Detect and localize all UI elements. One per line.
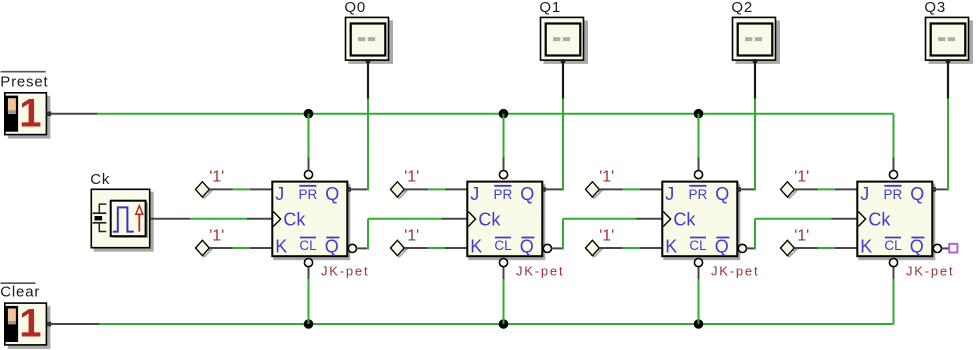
svg-text:Q: Q <box>715 184 729 204</box>
svg-text:Q3: Q3 <box>924 0 946 16</box>
constant '1' at FF1 K input (with value label) <box>196 227 225 256</box>
input switch Preset (value 1) <box>0 72 51 139</box>
wire: FF3 Q up to display Q2 <box>754 99 756 191</box>
wire: FF2 Qbar to FF3 Ck input <box>551 219 661 250</box>
constant '1' at FF3 K input (with value label) <box>586 227 615 256</box>
wire: FF2 Q up to display Q1 <box>562 99 564 191</box>
output display Q3 <box>924 0 973 64</box>
wire: Clear rail corner up to FF4 CL pin <box>893 267 895 324</box>
wire: constant to FF2 K pin <box>404 247 466 249</box>
svg-text:PR: PR <box>689 187 708 202</box>
svg-text:Q: Q <box>715 237 729 257</box>
svg-text:CL: CL <box>689 238 707 253</box>
svg-text:Ck: Ck <box>478 210 501 230</box>
wire: FF4 Qbar open pin marker <box>941 244 957 253</box>
junction + drop: Preset to FF2 PR pin <box>499 109 508 170</box>
wire: constant to FF1 J pin <box>209 188 271 190</box>
wire: Preset switch pin stub <box>51 113 98 115</box>
svg-text:'1': '1' <box>209 227 224 244</box>
clock generator Ck <box>90 171 154 252</box>
wire: constant to FF2 J pin <box>404 188 466 190</box>
svg-text:Q2: Q2 <box>731 0 753 16</box>
wire: display Q1 pin stub <box>562 61 564 99</box>
svg-text:CL: CL <box>494 238 512 253</box>
svg-text:JK-pet: JK-pet <box>906 264 954 279</box>
junction + rise: Clear to FF2 CL pin <box>499 267 508 328</box>
svg-text:1: 1 <box>19 91 41 135</box>
svg-text:Ck: Ck <box>90 171 110 188</box>
svg-text:Q1: Q1 <box>539 0 561 16</box>
svg-text:PR: PR <box>299 187 318 202</box>
wire: FF2 Q output stub <box>543 188 563 190</box>
junction + drop: Preset to FF1 PR pin <box>304 109 313 170</box>
svg-text:PR: PR <box>884 187 903 202</box>
input switch Clear (value 1) <box>0 283 51 349</box>
svg-text:Ck: Ck <box>673 210 696 230</box>
svg-text:K: K <box>860 236 872 256</box>
wire: constant to FF3 J pin <box>599 188 661 190</box>
wire: FF4 Q output stub <box>933 188 948 190</box>
wire: Clear switch pin stub <box>51 323 100 325</box>
svg-text:Q: Q <box>910 184 924 204</box>
wire: constant to FF3 K pin <box>599 247 661 249</box>
wire: FF3 Q output stub <box>738 188 755 190</box>
svg-text:K: K <box>470 236 482 256</box>
JK flip-flop U3 (JK-pet) <box>662 171 759 279</box>
wire: FF1 Q output stub <box>348 188 368 190</box>
output display Q2 <box>731 0 780 64</box>
wire: Preset rail corner down to FF4 PR pin <box>893 114 895 171</box>
wire: Clear rail (net CLEAR, high) <box>99 323 893 325</box>
svg-text:K: K <box>275 236 287 256</box>
svg-text:Q: Q <box>520 184 534 204</box>
JK flip-flop U1 (JK-pet) <box>272 171 369 279</box>
wire: constant to FF4 J pin <box>794 188 856 190</box>
svg-text:Q: Q <box>910 237 924 257</box>
svg-text:K: K <box>665 236 677 256</box>
junction + drop: Preset to FF3 PR pin <box>694 109 703 170</box>
svg-text:'1': '1' <box>794 169 809 186</box>
svg-text:'1': '1' <box>209 169 224 186</box>
svg-text:Clear: Clear <box>0 284 40 301</box>
svg-text:Q0: Q0 <box>344 0 366 16</box>
svg-text:CL: CL <box>884 238 902 253</box>
svg-text:JK-pet: JK-pet <box>711 264 759 279</box>
svg-text:J: J <box>665 184 674 204</box>
constant '1' at FF4 K input (with value label) <box>781 227 810 256</box>
svg-text:Q: Q <box>325 184 339 204</box>
wire: FF4 Q up to display Q3 <box>947 99 949 191</box>
junction + rise: Clear to FF3 CL pin <box>694 267 703 328</box>
output display Q1 <box>539 0 588 64</box>
svg-text:'1': '1' <box>794 227 809 244</box>
svg-text:Preset: Preset <box>0 74 48 91</box>
svg-text:'1': '1' <box>404 227 419 244</box>
wire: display Q2 pin stub <box>754 61 756 99</box>
output display Q0 <box>344 0 393 64</box>
svg-text:J: J <box>470 184 479 204</box>
svg-text:CL: CL <box>299 238 317 253</box>
constant '1' at FF2 J input (with value label) <box>391 169 420 199</box>
wire: FF1 Q up to display Q0 <box>367 99 369 191</box>
wire: constant to FF1 K pin <box>209 247 271 249</box>
wire: Preset rail (net PRESET, high) <box>97 113 893 115</box>
svg-text:1: 1 <box>19 302 41 346</box>
svg-text:Ck: Ck <box>868 210 891 230</box>
constant '1' at FF1 J input (with value label) <box>196 169 225 199</box>
wire: FF1 Qbar to FF2 Ck input <box>356 219 466 250</box>
wire: display Q0 pin stub <box>367 61 369 99</box>
svg-text:'1': '1' <box>599 227 614 244</box>
wire: display Q3 pin stub <box>947 61 949 99</box>
JK flip-flop U2 (JK-pet) <box>467 171 564 279</box>
junction + rise: Clear to FF1 CL pin <box>304 267 313 328</box>
svg-text:Q: Q <box>325 237 339 257</box>
svg-text:'1': '1' <box>599 169 614 186</box>
svg-text:Q: Q <box>520 237 534 257</box>
constant '1' at FF4 J input (with value label) <box>781 169 810 199</box>
svg-text:PR: PR <box>494 187 513 202</box>
svg-text:'1': '1' <box>404 169 419 186</box>
constant '1' at FF3 J input (with value label) <box>586 169 615 199</box>
wire: FF3 Qbar to FF4 Ck input <box>746 219 856 250</box>
svg-text:JK-pet: JK-pet <box>321 264 369 279</box>
svg-text:Ck: Ck <box>283 210 306 230</box>
svg-text:JK-pet: JK-pet <box>516 264 564 279</box>
constant '1' at FF2 K input (with value label) <box>391 227 420 256</box>
wire: constant to FF4 K pin <box>794 247 856 249</box>
JK flip-flop U4 (JK-pet) <box>857 171 954 279</box>
svg-text:J: J <box>275 184 284 204</box>
svg-text:J: J <box>860 184 869 204</box>
wire: clock Ck output to FF1 Ck input <box>151 218 272 220</box>
